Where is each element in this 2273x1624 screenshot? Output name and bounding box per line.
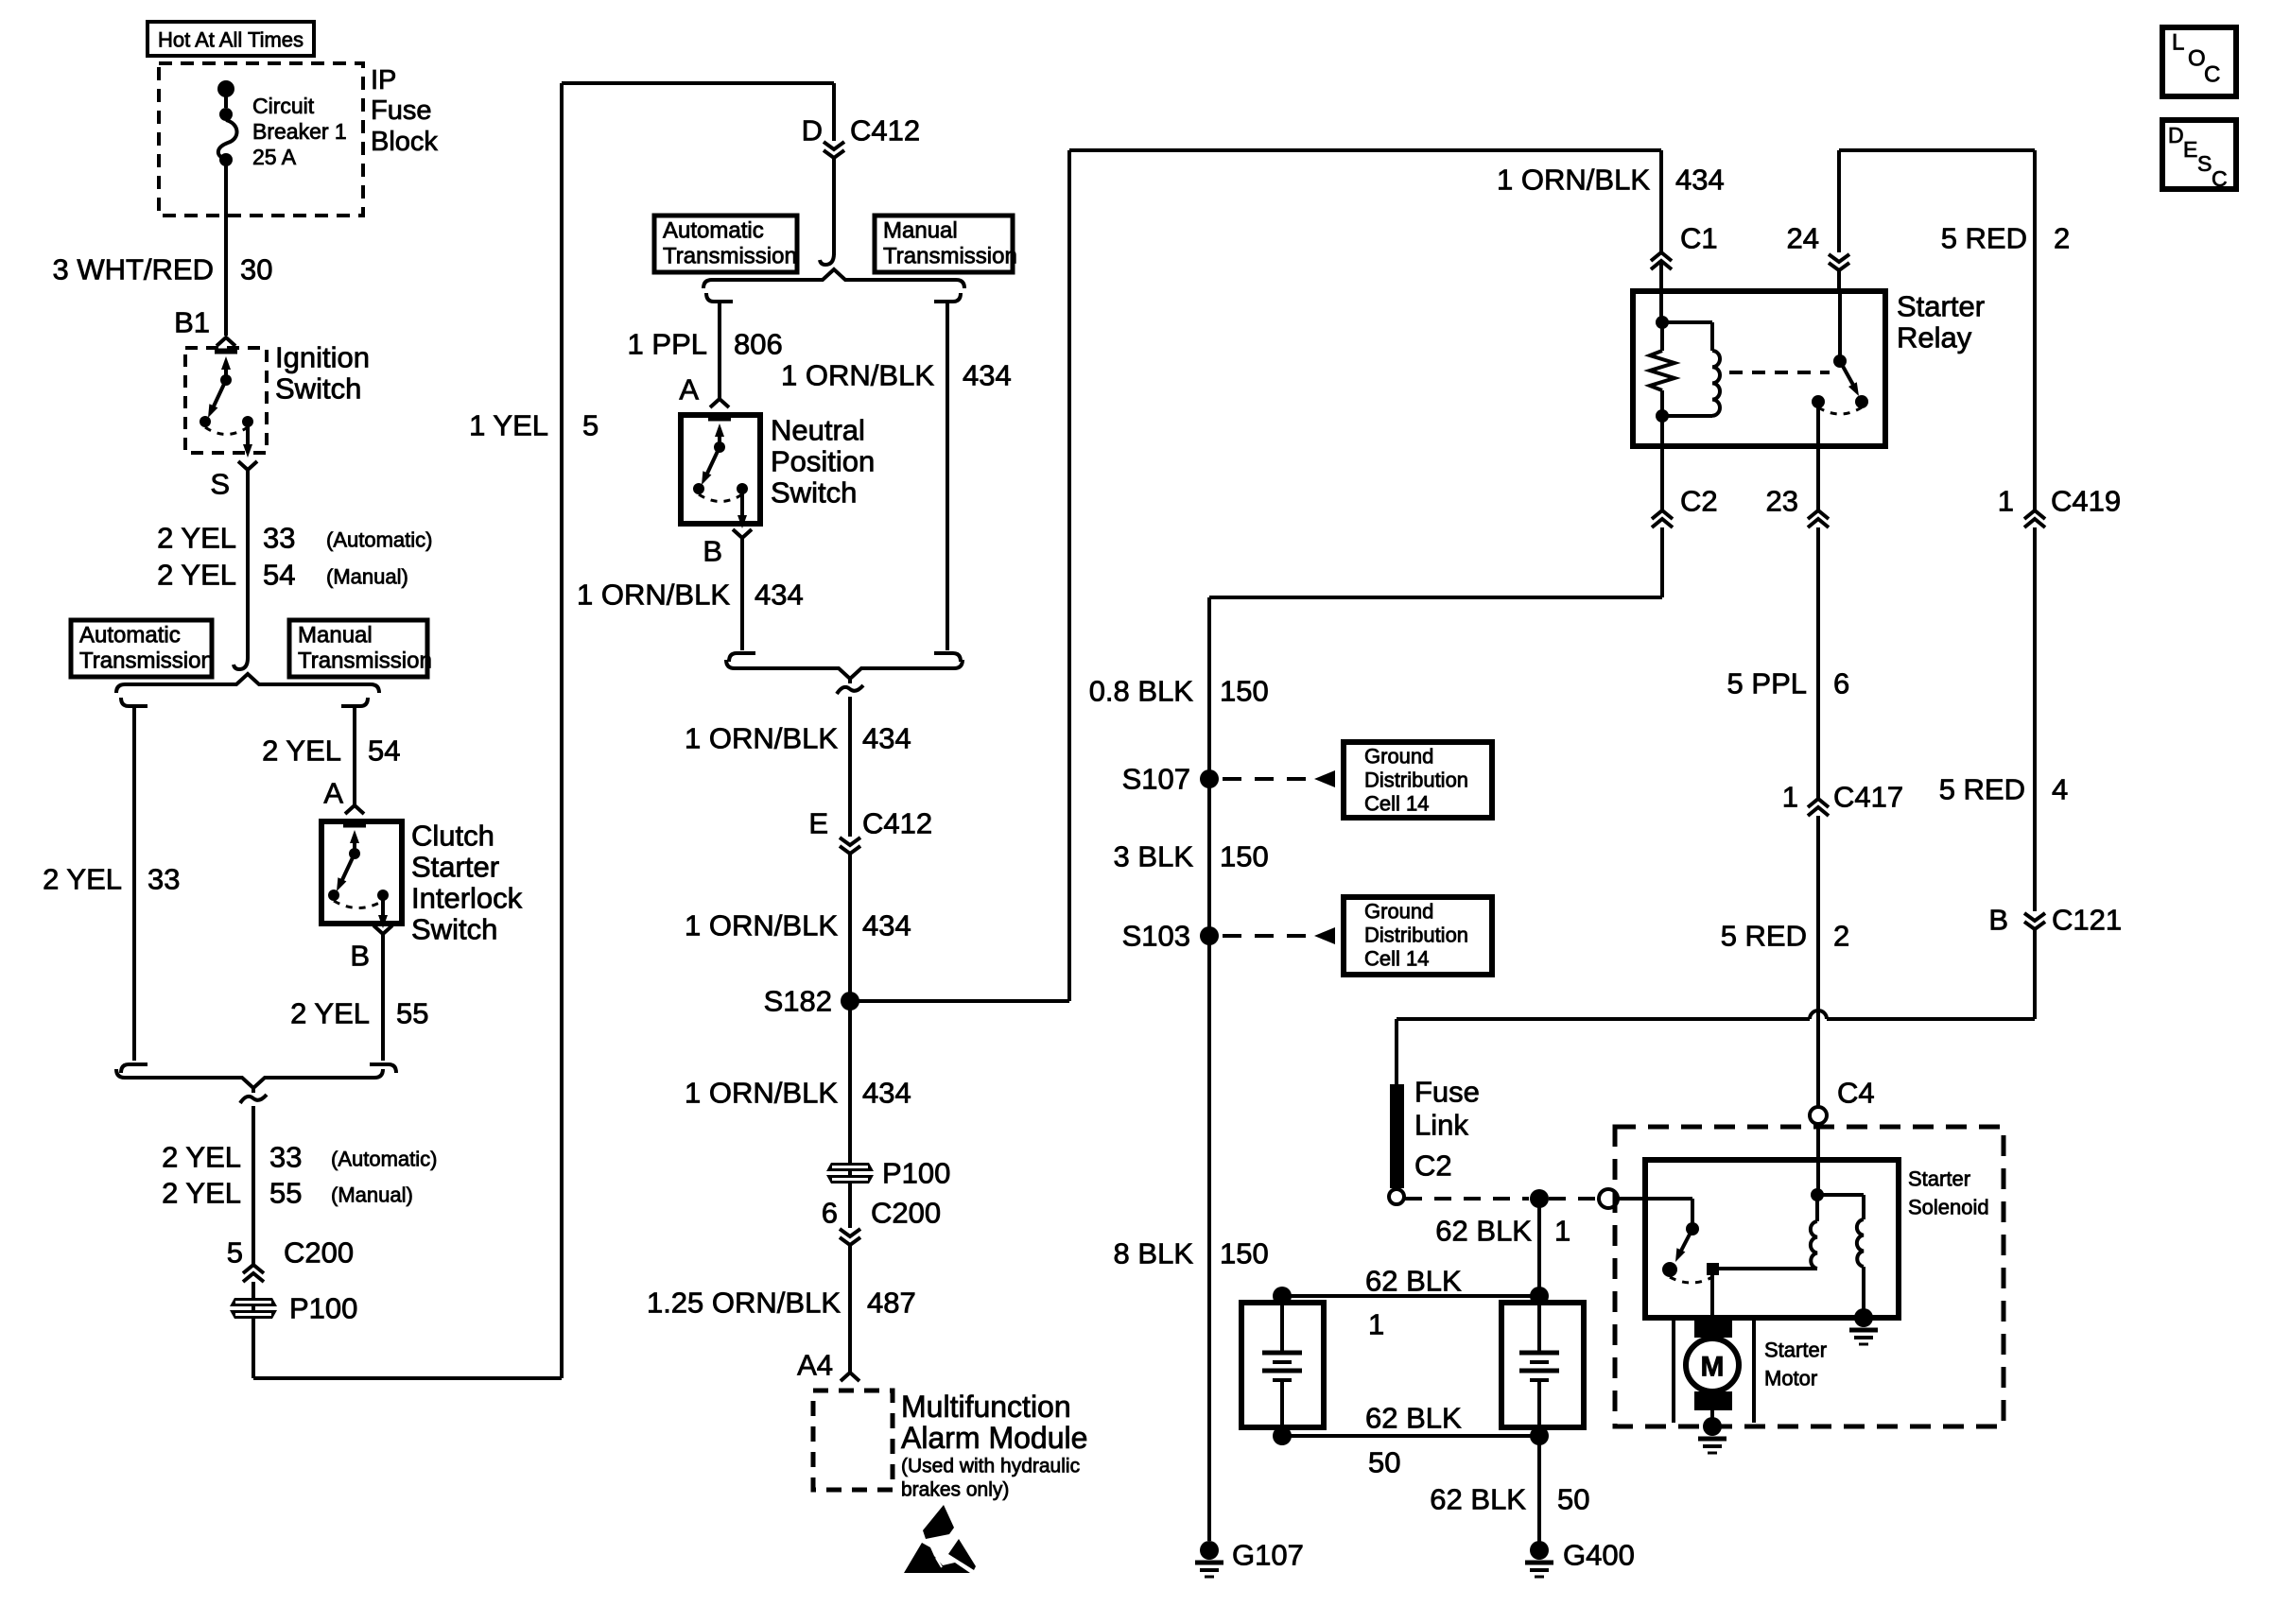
svg-text:806: 806 [734,328,783,361]
wire [1069,148,1661,152]
wire 62 BLK 50 [1537,1436,1541,1546]
label Starter Solenoid [1908,1167,1989,1219]
label box Manual Transmission [875,216,1017,272]
wire [253,1376,562,1380]
svg-text:25 A: 25 A [252,145,297,169]
solenoid winding ground [1849,1308,1878,1344]
svg-text:L: L [2172,30,2184,56]
wire 2 YEL [246,470,250,658]
wire 62 BLK 1 [1537,1199,1541,1296]
wire [252,1282,255,1298]
wire [2033,929,2037,1019]
svg-text:150: 150 [1220,840,1269,873]
label 1.25 ORN/BLK 487 [647,1287,916,1320]
wire [1816,402,1820,446]
svg-text:Transmission: Transmission [663,244,797,269]
label 1 YEL 5 [469,409,599,442]
ground G107 [1195,1541,1223,1577]
svg-text:Distribution: Distribution [1364,924,1468,947]
svg-text:C4: C4 [1837,1077,1875,1110]
wire [1659,150,1663,252]
svg-text:Cell 14: Cell 14 [1364,792,1429,816]
label 5 RED 2 [1721,920,1850,953]
solenoid hold-in winding [1817,1195,1864,1316]
label box DESC [2162,120,2236,191]
svg-text:Manual: Manual [883,218,958,244]
svg-text:B1: B1 [174,306,210,339]
node [219,153,233,166]
dashed wire [1549,1197,1597,1201]
wire 3 WHT/RED 30 [224,160,228,336]
multifunction alarm module (dashed box) [813,1391,893,1490]
relay resistor [1650,322,1674,416]
label 2 YEL 55 [290,997,428,1030]
junction [1530,1189,1549,1208]
svg-text:S: S [2197,151,2212,176]
svg-text:5: 5 [227,1236,243,1270]
connector C121 pin B [2024,913,2045,929]
battery 1 cells [1262,1303,1302,1427]
svg-text:5 RED: 5 RED [1939,773,2025,806]
svg-text:5 RED: 5 RED [1721,920,1807,953]
splice S182 [841,992,859,1011]
label S103 [1122,920,1190,953]
connector C4 [1810,1107,1827,1124]
svg-text:Switch: Switch [411,913,497,946]
wire 5 RED 4 [2033,527,2037,911]
solenoid switch contact [1662,1262,1677,1277]
label 1 ORN/BLK 434 [1497,164,1725,197]
label D C412 [802,114,921,147]
label 24 [1787,222,1819,255]
connector C2 [1652,510,1673,527]
svg-text:2 YEL: 2 YEL [290,997,370,1030]
svg-text:Manual: Manual [298,623,373,648]
svg-text:C1: C1 [1680,222,1718,255]
solenoid switch contact [1707,1263,1719,1275]
wire with hop [1397,1011,2035,1019]
svg-text:C200: C200 [284,1236,354,1270]
svg-text:4: 4 [2052,773,2068,806]
svg-text:2 YEL: 2 YEL [262,734,341,768]
svg-text:A4: A4 [797,1349,833,1382]
battery junction [1273,1287,1292,1305]
label E C412 [808,807,932,840]
dashed reference arrow [1223,927,1335,944]
connector C412 pin D [824,142,844,158]
svg-text:Fuse: Fuse [1414,1076,1480,1109]
label 2 YEL 33 [43,863,180,896]
fuse link [1390,1084,1404,1188]
label box LOC [2162,27,2236,96]
wire end hook [234,658,248,669]
label 2 YEL 55 (Manual) [162,1177,413,1210]
svg-text:1.25 ORN/BLK: 1.25 ORN/BLK [647,1287,841,1320]
grommet P100 [826,1163,874,1183]
splice S103 [1200,926,1219,945]
IP Fuse Block (dashed box) [159,63,363,216]
wire splice mark [240,1095,267,1103]
wire 1 ORN/BLK 434 [848,854,852,1163]
svg-text:1 ORN/BLK: 1 ORN/BLK [1497,164,1650,197]
label B [703,535,722,568]
wire [1816,1124,1820,1195]
relay switch contact [1855,395,1868,408]
terminal S [238,461,257,470]
wire 1 ORN/BLK 434 [848,679,852,837]
svg-text:1 PPL: 1 PPL [628,328,707,361]
wire end hook [820,253,834,265]
merge brace [726,660,963,679]
svg-text:1: 1 [1554,1215,1570,1248]
svg-text:G400: G400 [1563,1539,1635,1572]
battery 1 (box) [1241,1303,1324,1427]
svg-text:Automatic: Automatic [79,623,181,648]
label box Ground Distribution Cell 14 [1344,897,1492,975]
svg-text:D: D [802,114,823,147]
wire [832,158,836,255]
svg-text:Switch: Switch [771,476,857,510]
svg-text:487: 487 [867,1287,916,1320]
ESD symbol [904,1505,976,1573]
wire [1710,1269,1714,1318]
label 2 YEL 33 (Automatic) [162,1141,437,1174]
svg-text:2 YEL: 2 YEL [43,863,122,896]
svg-text:434: 434 [755,579,804,612]
wire [562,81,834,85]
wire 2 YEL 55 [370,934,396,1073]
svg-text:1 ORN/BLK: 1 ORN/BLK [685,722,838,755]
starter motor brush [1694,1318,1732,1338]
svg-text:54: 54 [263,559,295,592]
terminal B [373,925,392,934]
starter relay (box) [1633,291,1885,446]
svg-text:6: 6 [822,1197,838,1230]
clutch starter interlock switch (box) [321,821,402,924]
dashed wire [1405,1197,1529,1201]
svg-text:5: 5 [582,409,599,442]
svg-text:B: B [703,535,722,568]
wire [848,1183,852,1228]
relay switch blade [1840,361,1859,396]
connector C200 pin 5 [243,1265,264,1282]
label 2 YEL 54 (Manual) [157,559,408,592]
ground G400 [1525,1541,1553,1577]
wire 1.25 ORN/BLK 487 [848,1245,852,1373]
label 1 PPL 806 [628,328,783,361]
wire [1839,148,2035,152]
svg-text:1: 1 [1782,781,1798,814]
connector C417 pin 1 [1808,799,1829,816]
battery 2 cells [1519,1303,1559,1427]
svg-text:150: 150 [1220,675,1269,708]
svg-text:33: 33 [147,863,180,896]
battery junction [1530,1287,1549,1305]
svg-text:33: 33 [263,522,295,555]
svg-text:1: 1 [1368,1308,1384,1341]
label Starter Relay [1897,290,1985,354]
circuit breaker CB1 feed node [217,80,234,97]
svg-text:Starter: Starter [1897,290,1985,323]
svg-text:1: 1 [1998,485,2014,518]
svg-text:2: 2 [1833,920,1849,953]
svg-text:Relay: Relay [1897,321,1972,354]
starter motor M [1686,1339,1739,1391]
wire [1816,446,1820,510]
relay actuation (dashed) [1729,371,1830,374]
svg-text:C412: C412 [862,807,932,840]
svg-text:Motor: Motor [1764,1367,1817,1391]
starter solenoid (inner box) [1645,1160,1899,1318]
wire 1 ORN/BLK 434 (manual branch) [934,293,961,662]
svg-text:Ground: Ground [1364,900,1433,924]
svg-text:434: 434 [862,722,911,755]
svg-text:5 RED: 5 RED [1941,222,2027,255]
label 5 RED 4 [1939,773,2069,806]
svg-text:50: 50 [1368,1446,1400,1479]
label terminal A [679,373,699,406]
svg-text:1 ORN/BLK: 1 ORN/BLK [781,359,934,392]
svg-text:Position: Position [771,445,875,478]
wire [1067,150,1071,1001]
wire 2 YEL 54 (manual branch) [341,698,368,805]
label S107 [1122,763,1190,796]
svg-text:C417: C417 [1833,781,1903,814]
svg-text:(Manual): (Manual) [326,565,408,589]
relay coil [1662,322,1720,416]
svg-text:C419: C419 [2051,485,2121,518]
label 3 BLK 150 [1114,840,1269,873]
connector pin 24 [1829,254,1849,270]
wire [1209,596,1662,599]
svg-text:Switch: Switch [275,372,361,406]
svg-text:1 YEL: 1 YEL [469,409,548,442]
svg-text:S103: S103 [1122,920,1190,953]
solenoid pull-in winding [1811,1195,1817,1269]
svg-text:M: M [1701,1352,1725,1383]
label 1 ORN/BLK 434 [577,579,804,612]
ignition switch (dashed box) [185,348,267,453]
wire [224,89,228,108]
label Neutral Position Switch [771,414,875,510]
dashed reference arrow [1223,770,1335,787]
relay coil node [1656,316,1669,329]
label 1 C417 [1782,781,1903,814]
svg-text:62 BLK: 62 BLK [1435,1215,1532,1248]
label box Manual Transmission [289,620,432,677]
wire [850,999,1069,1003]
terminal A4 [841,1373,859,1381]
label C2 [1680,485,1718,518]
terminal A [345,805,364,814]
svg-text:E: E [2183,137,2197,162]
svg-text:33: 33 [269,1141,302,1174]
terminal A [710,399,729,407]
label 62 BLK 50 [1430,1483,1589,1516]
label G107 [1232,1539,1304,1572]
wire splice mark [837,685,863,694]
svg-text:IP: IP [371,65,396,95]
svg-text:Block: Block [371,127,438,157]
svg-text:(Used with hydraulic: (Used with hydraulic [901,1456,1080,1477]
label Ignition Switch [275,341,370,406]
label box Automatic Transmission [654,216,797,272]
starter motor frame [1674,1318,1754,1423]
svg-text:Multifunction: Multifunction [901,1390,1071,1424]
svg-text:O: O [2188,46,2206,72]
connector C200 pin 6 [840,1229,860,1245]
svg-text:62 BLK: 62 BLK [1365,1265,1462,1298]
svg-text:P100: P100 [882,1157,950,1190]
label 5 C200 [227,1236,354,1270]
merge brace [116,1069,383,1088]
label IP Fuse Block [371,65,438,157]
svg-text:Cell 14: Cell 14 [1364,947,1429,971]
wire 62 BLK 1 [1282,1294,1539,1298]
clutch switch contacts [328,825,389,928]
label 62 BLK 1 [1365,1265,1462,1341]
solenoid switch feed [1618,1199,1692,1225]
label terminal A4 [797,1349,833,1382]
label Starter Motor [1764,1339,1827,1391]
svg-text:Solenoid: Solenoid [1908,1196,1989,1219]
svg-text:G107: G107 [1232,1539,1304,1572]
svg-text:1 ORN/BLK: 1 ORN/BLK [577,579,730,612]
wire 5 PPL 6 [1816,527,1820,799]
svg-text:30: 30 [240,253,272,286]
label P100 [882,1157,950,1190]
circuit breaker CB1 element [218,120,237,159]
svg-text:3 WHT/RED: 3 WHT/RED [53,253,215,286]
label 1 ORN/BLK 434 [685,722,911,755]
label Clutch Starter Interlock Switch [411,820,523,946]
wire [252,1319,255,1378]
wire [1710,1410,1714,1423]
ignition switch contacts [200,352,253,458]
svg-text:B: B [350,940,370,973]
svg-text:A: A [679,373,699,406]
svg-text:24: 24 [1787,222,1819,255]
label 1 C419 [1998,485,2121,518]
label S182 [764,985,832,1018]
grommet P100 [230,1298,277,1319]
svg-text:C: C [2204,62,2220,88]
svg-text:Alarm Module: Alarm Module [901,1421,1087,1455]
label terminal A [323,777,343,810]
svg-text:(Manual): (Manual) [331,1183,413,1207]
label 62 BLK 1 [1435,1215,1570,1248]
svg-text:Automatic: Automatic [663,218,764,244]
label 2 YEL 33 (Automatic) [157,522,432,555]
solenoid switch blade [1675,1229,1692,1262]
svg-text:Starter: Starter [1764,1339,1827,1362]
label P100 [289,1292,357,1325]
label 1 ORN/BLK 434 [685,1077,911,1110]
svg-text:C: C [2212,166,2228,191]
svg-text:C121: C121 [2052,904,2122,937]
svg-text:(Automatic): (Automatic) [331,1148,437,1171]
neutral switch contacts [693,419,748,528]
svg-text:50: 50 [1557,1483,1589,1516]
wire 5 RED 2 [1816,816,1820,1108]
relay switch common [1833,291,1847,368]
svg-text:Ignition: Ignition [275,341,370,374]
wire 2 YEL [252,1088,255,1264]
svg-text:C412: C412 [850,114,920,147]
wire [1837,150,1841,252]
relay switch contact (pin 23) [1812,395,1825,408]
svg-text:P100: P100 [289,1292,357,1325]
node [219,108,233,121]
svg-text:Starter: Starter [1908,1167,1970,1191]
svg-text:434: 434 [963,359,1012,392]
svg-text:C2: C2 [1414,1149,1452,1183]
label Circuit Breaker 1 25 A [252,94,347,169]
ignition switch fixed contact [215,349,237,354]
svg-text:0.8 BLK: 0.8 BLK [1089,675,1194,708]
solenoid switch pivot [1686,1222,1699,1235]
svg-text:55: 55 [269,1177,302,1210]
wire 62 BLK 50 [1282,1434,1539,1438]
svg-text:55: 55 [396,997,428,1030]
neutral position switch (box) [681,415,760,524]
solenoid junction [1811,1188,1824,1201]
wire [1718,1267,1817,1270]
svg-text:Transmission: Transmission [883,244,1017,269]
label S [210,468,230,501]
wire [1660,416,1664,510]
svg-text:Transmission: Transmission [79,648,214,674]
svg-text:434: 434 [1675,164,1725,197]
label G400 [1563,1539,1635,1572]
label 1 ORN/BLK 434 [781,359,1012,392]
svg-text:Transmission: Transmission [298,648,432,674]
svg-text:434: 434 [862,909,911,942]
fuse link terminal [1389,1189,1404,1204]
svg-text:3 BLK: 3 BLK [1114,840,1194,873]
svg-text:23: 23 [1766,485,1798,518]
label 5 RED 2 [1941,222,2071,255]
terminal B [733,529,752,538]
svg-text:Link: Link [1414,1109,1468,1142]
label C1 [1680,222,1718,255]
label B [350,940,370,973]
label 2 YEL 54 [262,734,400,768]
svg-text:1 ORN/BLK: 1 ORN/BLK [685,909,838,942]
relay switch arc (dashed) [1818,407,1862,414]
wire 5 RED 2 [2033,150,2037,510]
battery junction [1273,1426,1292,1445]
label C2 [1414,1149,1452,1183]
label Fuse Link [1414,1076,1480,1142]
svg-text:Hot At All Times: Hot At All Times [158,28,304,52]
solenoid terminal [1599,1189,1618,1208]
connector C1 [1651,252,1672,269]
label 23 [1766,485,1798,518]
wire 0.8 BLK 150 [1207,597,1211,1541]
svg-text:54: 54 [368,734,400,768]
svg-text:E: E [808,807,828,840]
splice S107 [1200,769,1219,788]
wire 1 YEL 5 [560,83,564,1378]
battery junction [1530,1426,1549,1445]
svg-text:Clutch: Clutch [411,820,495,853]
svg-text:B: B [1988,904,2008,937]
svg-text:(Automatic): (Automatic) [326,528,432,552]
svg-text:Distribution: Distribution [1364,769,1468,792]
label 62 BLK 50 [1365,1402,1462,1479]
svg-text:1 ORN/BLK: 1 ORN/BLK [685,1077,838,1110]
